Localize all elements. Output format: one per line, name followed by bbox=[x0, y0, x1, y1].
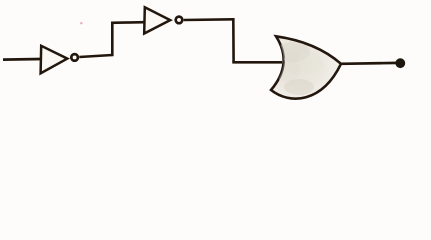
wire to inverter 2 bbox=[111, 21, 145, 24]
inverter U1 (NOT gate triangle) bbox=[41, 46, 68, 74]
output node dot bbox=[395, 58, 405, 68]
OR gate fill mottling bbox=[274, 42, 323, 95]
inverter U2 output bubble bbox=[176, 17, 183, 24]
wire U1 output to riser bbox=[79, 55, 112, 57]
OR gate U3 bbox=[271, 36, 341, 98]
wire drop down bbox=[232, 18, 235, 62]
wire U2 output going right bbox=[184, 18, 234, 21]
inverter U1 output bubble bbox=[71, 54, 78, 61]
wire riser up bbox=[111, 22, 114, 57]
pink scan speck bbox=[80, 22, 82, 24]
wire OR output bbox=[341, 62, 398, 66]
wire input to inverter 1 bbox=[3, 58, 41, 61]
wire into OR gate bbox=[232, 61, 282, 64]
inverter U2 (NOT gate triangle) bbox=[144, 7, 170, 33]
